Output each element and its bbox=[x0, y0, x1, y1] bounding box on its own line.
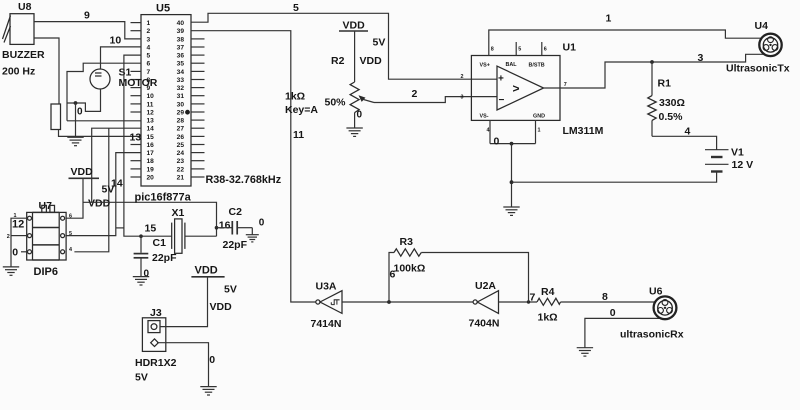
svg-text:5V: 5V bbox=[102, 184, 115, 196]
svg-text:8: 8 bbox=[602, 291, 608, 303]
svg-text:R1: R1 bbox=[658, 78, 672, 90]
svg-text:18: 18 bbox=[147, 158, 155, 165]
svg-text:1: 1 bbox=[538, 127, 541, 133]
svg-text:>: > bbox=[513, 82, 520, 96]
svg-text:C1: C1 bbox=[153, 237, 167, 249]
svg-text:VDD: VDD bbox=[360, 55, 383, 67]
svg-text:5: 5 bbox=[147, 53, 151, 60]
svg-text:7414N: 7414N bbox=[311, 318, 342, 330]
power VDD (left, 5V) bbox=[69, 166, 115, 210]
junction R1 top bbox=[650, 60, 654, 64]
svg-text:6: 6 bbox=[69, 214, 72, 220]
svg-text:0: 0 bbox=[494, 135, 500, 147]
svg-text:0: 0 bbox=[77, 107, 83, 118]
wire U7 pin3 stub bbox=[21, 251, 27, 253]
wire net 5 (U5 pin40 to U1 plus input) bbox=[191, 13, 497, 79]
wire net 4 (R1 to V1 plus) bbox=[652, 136, 717, 149]
svg-text:0: 0 bbox=[12, 246, 18, 258]
svg-text:U2A: U2A bbox=[475, 280, 496, 292]
svg-text:+: + bbox=[498, 74, 504, 85]
wire U7 pin1 to ground bbox=[11, 218, 27, 267]
svg-text:VDD: VDD bbox=[195, 265, 218, 277]
crystal X1 bbox=[172, 207, 185, 253]
svg-text:13: 13 bbox=[147, 118, 155, 125]
wire U3A input to junction 6 bbox=[342, 301, 473, 303]
wire U2A input to node 7 bbox=[499, 301, 538, 303]
svg-text:VS-: VS- bbox=[480, 113, 489, 119]
ground (C2) bbox=[246, 235, 259, 242]
ground (R2) bbox=[346, 128, 362, 136]
svg-text:12: 12 bbox=[12, 219, 24, 231]
svg-text:23: 23 bbox=[177, 158, 185, 165]
U1 left pin number labels 2,3 bbox=[461, 74, 464, 100]
svg-text:VDD: VDD bbox=[343, 20, 366, 32]
svg-text:35: 35 bbox=[177, 61, 185, 68]
svg-text:−: − bbox=[499, 95, 505, 106]
svg-text:4: 4 bbox=[147, 44, 151, 51]
svg-text:15: 15 bbox=[147, 134, 155, 141]
svg-text:R4: R4 bbox=[541, 286, 555, 298]
svg-text:2: 2 bbox=[461, 74, 464, 80]
svg-text:U8: U8 bbox=[18, 1, 32, 13]
svg-text:10: 10 bbox=[147, 93, 155, 100]
U5 left pin stubs (pins 1,2,7-14,16-20 unconnected dashes) bbox=[131, 23, 142, 177]
svg-text:30: 30 bbox=[177, 101, 185, 108]
ground (J3) bbox=[200, 387, 216, 395]
svg-text:VDD: VDD bbox=[88, 198, 111, 210]
svg-text:34: 34 bbox=[177, 69, 185, 76]
buzzer U8 bbox=[2, 1, 45, 78]
wire node 0 to ground bbox=[75, 103, 77, 137]
transducer U4 UltrasonicTx bbox=[726, 20, 790, 75]
svg-text:4: 4 bbox=[685, 125, 691, 137]
svg-text:9: 9 bbox=[84, 10, 90, 22]
wire net 3 (U1 output to UltrasonicTx) bbox=[544, 54, 765, 88]
svg-text:39: 39 bbox=[177, 28, 185, 35]
svg-text:3: 3 bbox=[461, 95, 464, 101]
svg-text:22pF: 22pF bbox=[223, 239, 248, 251]
junction node 0 (motor/buzzer ground) bbox=[74, 101, 78, 105]
svg-text:DIP6: DIP6 bbox=[34, 266, 58, 278]
svg-text:31: 31 bbox=[177, 93, 185, 100]
svg-text:LM311M: LM311M bbox=[563, 125, 604, 137]
svg-text:19: 19 bbox=[147, 166, 155, 173]
wire net 11 (U5 pin39 down to U3A output) bbox=[191, 31, 316, 302]
svg-text:7404N: 7404N bbox=[469, 318, 500, 330]
wire R2 bottom to ground bbox=[354, 113, 356, 128]
U1 pin number labels top bbox=[491, 47, 547, 53]
comparator U1 LM311M bbox=[471, 42, 603, 138]
svg-text:6: 6 bbox=[147, 61, 151, 68]
svg-text:0: 0 bbox=[209, 354, 215, 366]
ground (U7 pin1) bbox=[3, 267, 19, 275]
svg-text:36: 36 bbox=[177, 53, 185, 60]
header J3 HDR1X2 bbox=[135, 307, 177, 384]
ground (motor node) bbox=[67, 137, 83, 145]
wire U5 pin14 drop to DIP pin4 bbox=[74, 128, 108, 252]
svg-text:3: 3 bbox=[698, 52, 704, 64]
wire U7 pin2 stub bbox=[11, 235, 27, 237]
svg-text:4: 4 bbox=[69, 247, 72, 253]
power VDD (J3, 5V) bbox=[191, 265, 236, 313]
battery V1 12 V bbox=[705, 146, 753, 171]
svg-text:20: 20 bbox=[147, 174, 155, 181]
power VDD (R2 pot, 5V) bbox=[339, 20, 385, 67]
wire VDD to R2 top bbox=[354, 31, 356, 82]
svg-text:38: 38 bbox=[177, 36, 185, 43]
svg-text:200 Hz: 200 Hz bbox=[2, 66, 35, 78]
wire crystal right lead bbox=[185, 235, 217, 237]
wire J3 pin1 to VDD bbox=[160, 277, 208, 327]
svg-text:U5: U5 bbox=[156, 3, 170, 15]
wire net 14 (U5 pin14 corridor) bbox=[92, 128, 141, 202]
svg-text:2: 2 bbox=[7, 234, 10, 240]
U5 right pin numbers 40-21 bbox=[177, 20, 185, 181]
svg-text:0: 0 bbox=[610, 307, 616, 319]
junction C2 tap bbox=[215, 226, 219, 230]
svg-text:11: 11 bbox=[293, 129, 304, 141]
capacitor C2 bbox=[217, 206, 253, 251]
svg-text:11: 11 bbox=[147, 101, 154, 108]
svg-text:V1: V1 bbox=[731, 146, 744, 158]
svg-text:22pF: 22pF bbox=[152, 252, 177, 264]
wire U5 pin6 zigzag to node 0 vertical bbox=[67, 63, 141, 121]
wire VDD stem to DIP pin6 bbox=[66, 178, 83, 218]
svg-text:HDR1X2: HDR1X2 bbox=[135, 357, 177, 369]
svg-text:R3: R3 bbox=[400, 236, 414, 248]
svg-text:13: 13 bbox=[130, 132, 142, 144]
svg-text:0: 0 bbox=[144, 268, 150, 279]
resistor R4 1k bbox=[537, 286, 561, 324]
svg-text:5V: 5V bbox=[373, 37, 386, 49]
junction U1 ground node bbox=[510, 142, 514, 146]
svg-text:29: 29 bbox=[177, 109, 185, 116]
svg-text:Key=A: Key=A bbox=[285, 104, 318, 116]
wire net 2 (R2 wiper to U1 minus input) bbox=[374, 97, 497, 103]
junction node 6 bbox=[387, 300, 391, 304]
svg-text:1: 1 bbox=[606, 13, 612, 25]
svg-text:26: 26 bbox=[177, 134, 185, 141]
svg-text:12 V: 12 V bbox=[732, 159, 754, 171]
svg-text:R2: R2 bbox=[331, 55, 345, 67]
svg-text:U6: U6 bbox=[649, 286, 663, 298]
svg-text:14: 14 bbox=[147, 126, 155, 133]
U1 bottom pin number labels 4,1 bbox=[487, 127, 541, 133]
svg-text:22: 22 bbox=[177, 166, 185, 173]
svg-text:3: 3 bbox=[147, 36, 151, 43]
svg-text:2: 2 bbox=[147, 28, 151, 35]
wire V1 minus to ground node bbox=[512, 172, 717, 183]
wire U8 pin2 down to box bbox=[34, 38, 59, 104]
svg-text:17: 17 bbox=[147, 150, 155, 157]
svg-text:7: 7 bbox=[147, 69, 151, 76]
svg-text:1: 1 bbox=[147, 20, 151, 27]
svg-text:16: 16 bbox=[147, 142, 155, 149]
svg-text:37: 37 bbox=[177, 44, 185, 51]
wire motor bottom to node 0 bbox=[67, 89, 101, 111]
motor S1 bbox=[90, 67, 158, 90]
capacitor C1 bbox=[134, 236, 177, 276]
svg-text:BAL: BAL bbox=[506, 62, 518, 68]
svg-text:5V: 5V bbox=[135, 372, 148, 384]
svg-text:40: 40 bbox=[177, 20, 185, 27]
svg-text:7: 7 bbox=[530, 291, 536, 303]
svg-text:1kΩ: 1kΩ bbox=[285, 91, 305, 103]
svg-text:U4: U4 bbox=[755, 20, 769, 32]
inverter U2A 7404N (pointing left) bbox=[469, 280, 500, 330]
wire net 1 (U1 pin8 to UltrasonicTx) bbox=[489, 30, 762, 42]
svg-text:100kΩ: 100kΩ bbox=[394, 263, 426, 275]
svg-text:5V: 5V bbox=[224, 283, 237, 295]
svg-text:5: 5 bbox=[69, 231, 72, 237]
svg-text:12: 12 bbox=[147, 109, 155, 116]
svg-text:6: 6 bbox=[544, 47, 547, 53]
wire U5 pin17 drop with jog to crystal net bbox=[66, 153, 141, 236]
U1 top pin stubs 8,5,6 bbox=[489, 42, 542, 56]
svg-text:0: 0 bbox=[357, 110, 363, 121]
U5 left pin numbers 1-20 bbox=[147, 20, 155, 181]
wire net 16 (long horizontal to crystal right riser) bbox=[83, 202, 217, 236]
junction battery return bbox=[510, 180, 514, 184]
svg-text:0: 0 bbox=[259, 217, 265, 228]
svg-text:X1: X1 bbox=[172, 207, 185, 219]
svg-text:8: 8 bbox=[491, 47, 494, 53]
svg-text:U1: U1 bbox=[563, 42, 577, 54]
svg-text:R38-32.768kHz: R38-32.768kHz bbox=[206, 174, 282, 186]
resistor R3 100k feedback bbox=[389, 236, 529, 302]
U1 bottom pin stubs 4,1 bbox=[490, 120, 536, 143]
resistor R1 330 ohm bbox=[648, 62, 685, 136]
inverter U3A 7414N (schmitt, pointing left) bbox=[311, 281, 343, 331]
microcontroller U5 pic16f877a body bbox=[141, 3, 191, 187]
svg-text:VS+: VS+ bbox=[480, 62, 490, 68]
wire net to U5 pin13 bbox=[67, 120, 141, 122]
svg-text:24: 24 bbox=[177, 150, 185, 157]
wire ultrasonicRx lower lead to ground bbox=[585, 318, 661, 347]
transducer U6 ultrasonicRx bbox=[620, 286, 684, 341]
svg-text:27: 27 bbox=[177, 126, 185, 133]
svg-text:ultrasonicRx: ultrasonicRx bbox=[620, 329, 684, 341]
U5 right pin stubs (pins 38-21 unconnected dashes) bbox=[191, 39, 205, 177]
svg-text:15: 15 bbox=[145, 222, 157, 234]
svg-text:U3A: U3A bbox=[316, 281, 337, 293]
wire net 8 (R4 to ultrasonicRx) bbox=[561, 301, 657, 303]
svg-text:28: 28 bbox=[177, 118, 185, 125]
ground (U6) bbox=[577, 348, 593, 356]
svg-text:5: 5 bbox=[518, 47, 521, 53]
wire net 15 (U5 pin5 down to crystal left) bbox=[124, 55, 172, 236]
DIP switch U7 DIP6 bbox=[27, 200, 66, 278]
wire net 13 (box to U5 pin15) bbox=[59, 130, 142, 137]
svg-text:2: 2 bbox=[412, 88, 418, 100]
svg-text:330Ω: 330Ω bbox=[659, 97, 685, 109]
junction C1/crystal bbox=[139, 234, 143, 238]
svg-text:BUZZER: BUZZER bbox=[2, 49, 45, 61]
svg-text:VDD: VDD bbox=[210, 301, 233, 313]
svg-text:33: 33 bbox=[177, 77, 185, 84]
svg-text:21: 21 bbox=[177, 174, 185, 181]
svg-text:7: 7 bbox=[564, 82, 567, 88]
U5 pin-29 cursor dot bbox=[185, 110, 190, 115]
wire net 9 (U8 pin1 to U5 pin3) bbox=[34, 22, 141, 39]
ground (U1/V1) bbox=[503, 207, 519, 215]
svg-text:1kΩ: 1kΩ bbox=[538, 312, 558, 324]
wire U1 ground node down bbox=[511, 144, 513, 207]
wire net 10 (motor top to U5 pin4) bbox=[101, 47, 142, 69]
svg-text:5: 5 bbox=[293, 2, 299, 14]
svg-text:25: 25 bbox=[177, 142, 185, 149]
svg-text:C2: C2 bbox=[229, 206, 243, 218]
svg-text:GND: GND bbox=[533, 113, 545, 119]
svg-text:B/STB: B/STB bbox=[529, 62, 545, 68]
box component in series with buzzer bbox=[51, 104, 61, 130]
svg-text:0.5%: 0.5% bbox=[659, 111, 684, 123]
svg-text:VDD: VDD bbox=[71, 166, 94, 178]
U7 right pin labels 6,5,4 bbox=[69, 214, 72, 254]
svg-text:50%: 50% bbox=[325, 97, 347, 109]
svg-text:4: 4 bbox=[487, 127, 490, 133]
ground (C1) bbox=[133, 277, 149, 285]
svg-text:10: 10 bbox=[110, 35, 122, 47]
svg-text:UltrasonicTx: UltrasonicTx bbox=[726, 63, 790, 75]
svg-text:16: 16 bbox=[219, 219, 231, 231]
svg-text:32: 32 bbox=[177, 85, 185, 92]
potentiometer R2 bbox=[285, 55, 374, 116]
wire J3 pin2 to ground bbox=[157, 343, 209, 387]
